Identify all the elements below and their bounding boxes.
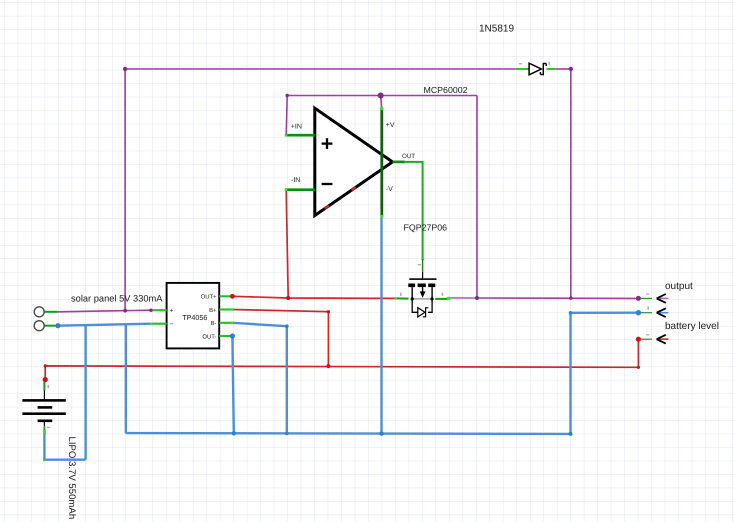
node: red dot battery +	[43, 377, 48, 382]
wire: blue drop from TP4056 OUT- to ground rail	[232, 336, 233, 433]
pin: TP4056 B+	[219, 308, 232, 310]
wire: red battery positive rail	[45, 339, 638, 379]
svg-text:+V: +V	[386, 122, 395, 129]
pin: gate lead	[422, 259, 424, 272]
node: blue bend B-	[285, 324, 289, 328]
wire: blue ground rail horizontal	[126, 432, 571, 435]
svg-text:FQP27P06: FQP27P06	[404, 223, 448, 233]
node: output pin2 dot	[636, 310, 641, 315]
svg-text:solar panel 5V 330mA: solar panel 5V 330mA	[71, 294, 163, 304]
svg-text:output: output	[665, 281, 693, 292]
wire: green op-amp OUT to mosfet gate	[405, 162, 423, 259]
pin numbers	[519, 63, 522, 64]
wire: purple drop to op-amp +IN	[286, 96, 287, 136]
source lead	[411, 287, 413, 299]
wire: purple vertical x=477 down to output rail	[476, 96, 478, 299]
svg-text:OUT-: OUT-	[202, 333, 216, 340]
node: red bend right corner	[637, 366, 640, 369]
node: red junction -IN drop	[286, 296, 290, 300]
node: blue junction right end ground rail	[569, 432, 573, 436]
wire: blue sloped from solar - terminal to TP4056 - pin	[58, 324, 151, 326]
svg-text:TP4056: TP4056	[182, 313, 207, 322]
svg-text:MCP60002: MCP60002	[424, 85, 468, 95]
node: purple bend top-left	[123, 67, 127, 71]
wire: blue drop from op-amp -V to ground rail	[380, 218, 382, 434]
wire: purple vertical from top-left corner down to solar + wire	[124, 69, 126, 311]
pin: anode stub	[516, 68, 529, 70]
wire: blue to output connector pin 2	[571, 312, 639, 314]
pin: TP4056 OUT+	[219, 295, 232, 297]
node: drain junction dot	[431, 297, 434, 300]
pin: battery - lead	[43, 422, 45, 426]
gate bar	[409, 278, 436, 280]
wire: red from TP4056 OUT+ to mosfet source	[232, 296, 395, 298]
channel line	[412, 298, 432, 300]
wire: purple from diode cathode to right corner	[556, 68, 571, 70]
wire: purple output rail to output connector	[449, 297, 477, 299]
wire: red drop from op-amp -IN to output node	[286, 190, 288, 298]
node: purple junction x=570.8 on output rail	[569, 296, 572, 299]
node: source junction dot	[411, 297, 414, 300]
wire: purple horizontal feedback rail y=95.5	[287, 95, 477, 97]
pin: op-amp -IN	[286, 188, 315, 191]
pin: op-amp OUT	[393, 161, 405, 164]
node: output pin1 dot	[636, 296, 641, 301]
svg-text:B-: B-	[211, 320, 217, 327]
pin numbers	[48, 385, 50, 388]
node: battery level pin dot	[636, 337, 641, 342]
connector P1 solar panel terminal 1	[34, 307, 44, 317]
op-amp minus symbol	[322, 183, 333, 185]
node: blue junction B- on ground rail	[285, 432, 289, 436]
pin: op-amp +IN	[286, 134, 315, 137]
node: purple bend feedback rail left	[286, 94, 289, 97]
op-amp plus symbol	[322, 142, 333, 144]
node: purple wire end at TP4056 + pin	[149, 309, 152, 312]
node: solar - stub	[44, 325, 58, 327]
diode triangle	[529, 63, 541, 75]
node: purple junction on solar wire	[123, 309, 127, 313]
node: blue junction OUT- on ground rail	[232, 431, 236, 435]
wire: blue vertical x=85.6 down to battery minus	[84, 325, 86, 460]
wire: blue vertical x=125.8 to ground rail	[125, 324, 127, 433]
transistor Q1 FQP27P06 p-mosfet	[395, 259, 451, 317]
pin numbers	[400, 293, 402, 296]
wire: blue from TP4056 B- to ground rail	[232, 323, 286, 434]
op-amp U1 MCP60002 triangle	[315, 108, 393, 215]
node: blue bend x=570.5 top	[569, 311, 573, 315]
svg-text:+: +	[170, 308, 174, 315]
wire: blue vertical x=570.5 up from ground rail	[569, 313, 571, 434]
svg-text:1N5819: 1N5819	[479, 24, 514, 35]
diode D1 1N5819 schottky	[516, 62, 556, 75]
red dashes on hypotenuse	[352, 187, 356, 190]
wire: blue horizontal battery minus link	[44, 459, 85, 461]
pin: cathode stub	[547, 68, 556, 70]
node: blue dot TP4056 OUT-	[230, 333, 235, 338]
node: red bend B+	[327, 310, 330, 313]
connector J2 output pin 2	[640, 306, 668, 317]
svg-text:−: −	[170, 321, 174, 328]
node: blue junction -V on ground rail	[379, 431, 383, 435]
connector J3 battery level pin 1	[640, 334, 668, 343]
svg-text:B+: B+	[209, 307, 217, 314]
schottky cathode bar	[540, 64, 546, 75]
battery BT1 LIPO	[22, 382, 65, 435]
wire: purple horizontal top from corner to diode anode	[125, 68, 516, 70]
body diode of mosfet	[412, 299, 418, 312]
body arrow	[422, 287, 424, 292]
svg-text:+IN: +IN	[291, 124, 302, 131]
wire: blue from battery minus terminal down	[43, 434, 45, 459]
svg-text:OUT+: OUT+	[201, 294, 217, 301]
node: purple bend diode corner	[569, 67, 573, 71]
svg-text:-V: -V	[386, 186, 393, 193]
pin: op-amp +V / -V vertical	[380, 96, 383, 108]
node: red bend battery corner	[44, 364, 47, 367]
wire: purple sloped from solar + terminal to TP4056 + pin	[58, 310, 151, 312]
IC U2 TP4056 body	[167, 283, 220, 349]
wire: purple vertical from diode corner down to output rail	[570, 69, 572, 298]
node: purple junction x=477 on output rail	[475, 296, 479, 300]
svg-text:OUT: OUT	[402, 153, 415, 160]
battery plates	[22, 399, 65, 402]
node: red dot at TP4056 OUT+	[230, 294, 235, 299]
pin: TP4056 B-	[219, 322, 232, 324]
pin: battery + lead	[43, 382, 45, 391]
pin: TP4056 OUT-	[219, 335, 232, 337]
pin: mosfet source stub	[396, 297, 409, 299]
svg-text:battery level: battery level	[665, 321, 719, 332]
node: solar + stub	[44, 311, 58, 313]
connector J2 output pin 1	[640, 293, 668, 302]
pin: TP4056 - (left)	[151, 323, 166, 325]
pin: mosfet drain stub	[435, 298, 449, 300]
svg-text:LIPO 3.7V 550mAh: LIPO 3.7V 550mAh	[66, 437, 77, 520]
node: purple junction at +V	[378, 93, 384, 99]
node: blue dot solar -	[55, 323, 60, 328]
contact bars	[408, 284, 415, 288]
node: red junction on battery rail	[326, 364, 330, 368]
wire: red from TP4056 B+ down to battery rail	[232, 310, 328, 367]
drain lead	[431, 287, 433, 299]
pin: TP4056 + (left)	[151, 309, 166, 311]
connector P2 solar panel terminal 2	[34, 321, 44, 331]
svg-text:-IN: -IN	[291, 177, 300, 184]
